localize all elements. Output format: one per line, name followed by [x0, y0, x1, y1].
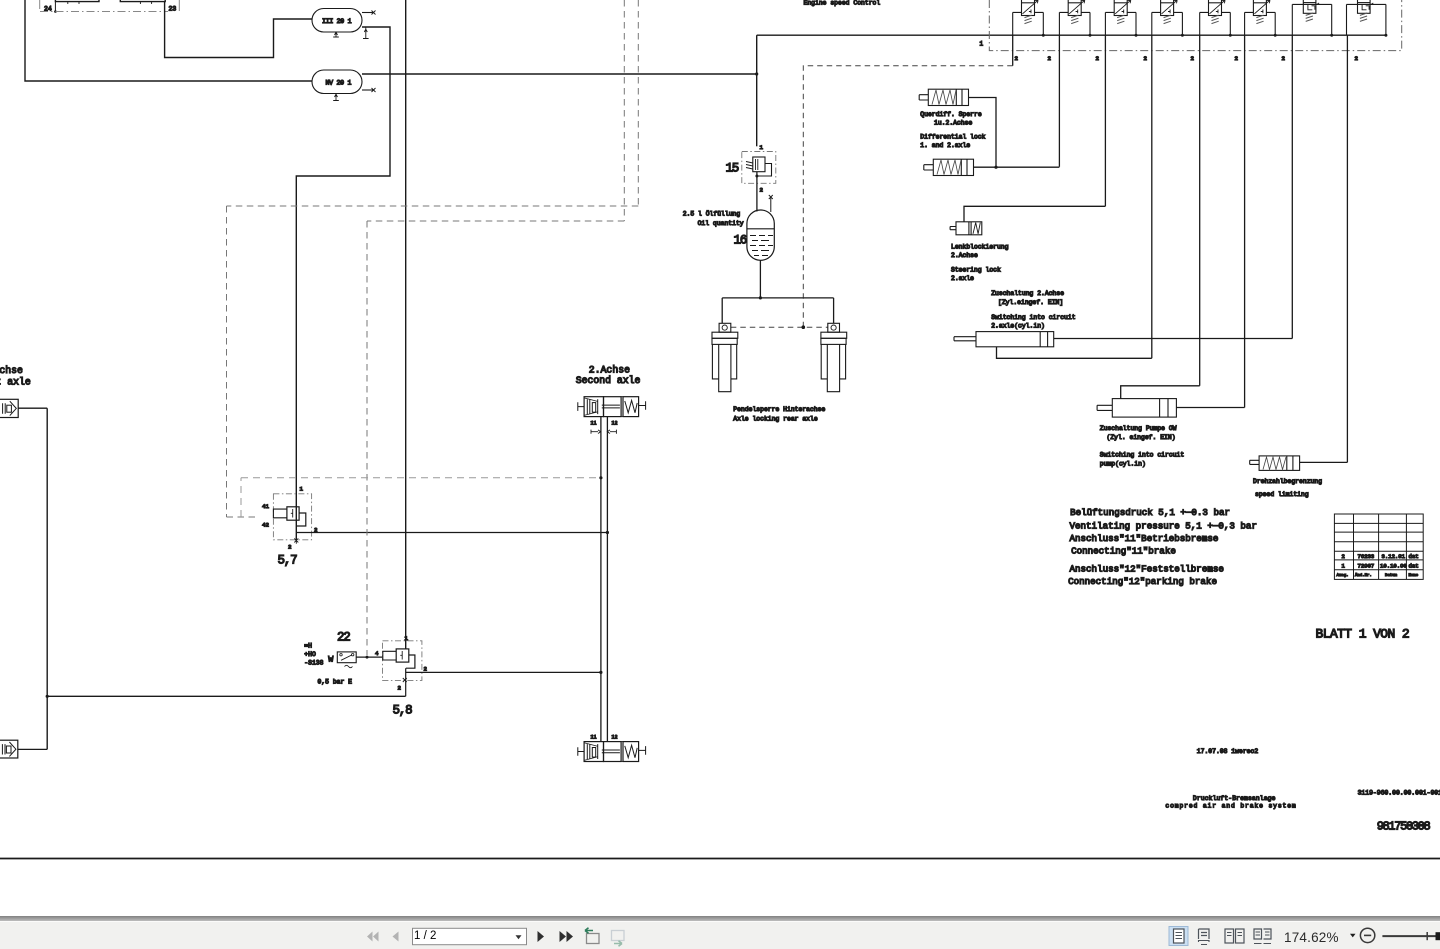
- vent line of accumulator: [769, 195, 773, 212]
- node pilot line to switch wire: [366, 656, 369, 659]
- node pilot wire junction: [802, 325, 806, 329]
- node valve V3 manifold: [1135, 34, 1138, 37]
- svg-text:Anschluss"12"Feststellbremse: Anschluss"12"Feststellbremse: [1070, 564, 1224, 575]
- drain symbol below III 20 1: [333, 32, 339, 37]
- directional valve second axle (lower): [578, 742, 646, 762]
- svg-text:Pendelsperre Hinterachse: Pendelsperre Hinterachse: [733, 406, 825, 413]
- svg-text:2.Achse: 2.Achse: [589, 364, 630, 375]
- wire valve 5,7 port 2 to axle valves: [296, 532, 607, 534]
- sheet bottom border line: [0, 858, 1440, 860]
- component box 24 (cut off at top): [54, 0, 99, 13]
- wire manifold to right lock cylinder: [833, 298, 835, 323]
- cylinder switching 2nd axle (Zuschaltung 2.Achse): [954, 332, 1054, 347]
- revision table: [1334, 514, 1423, 579]
- svg-text:Switching into circuit: Switching into circuit: [991, 314, 1076, 321]
- svg-text:NV 20 1: NV 20 1: [326, 80, 352, 87]
- zoom out button: [1360, 928, 1374, 942]
- svg-text:3.12.91: 3.12.91: [1382, 553, 1406, 560]
- svg-text:Connecting"11"brake: Connecting"11"brake: [1071, 546, 1176, 557]
- first page button (disabled): [367, 932, 379, 942]
- continuous scroll view button: [1199, 929, 1210, 945]
- svg-text:41: 41: [262, 503, 269, 510]
- wire lower left valve to riser: [18, 748, 47, 750]
- solenoid valve V8: [1347, 0, 1386, 35]
- node valve V5 manifold: [1229, 34, 1232, 37]
- wire drop from valve V5 (port 2): [1199, 35, 1201, 386]
- svg-text:Zuschaltung Pumpe OW: Zuschaltung Pumpe OW: [1100, 425, 1177, 432]
- zoom dropdown caret: [1350, 934, 1356, 938]
- svg-text:Belüftungsdruck 5,1 +─0.3 bar: Belüftungsdruck 5,1 +─0.3 bar: [1070, 507, 1230, 518]
- group frame dash-dot line (boxes 23/24): [40, 0, 180, 12]
- wire speed-limit cylinder to valve V8 drop: [1300, 461, 1348, 463]
- svg-text:981750308: 981750308: [1377, 819, 1431, 833]
- svg-text:dat: dat: [1409, 563, 1419, 570]
- cylinder speed limiting (Drehzahlbegrenzung): [1250, 456, 1300, 471]
- svg-text:2: 2: [760, 187, 764, 194]
- svg-text:5,8: 5,8: [393, 704, 413, 718]
- solenoid valve V6: [1245, 0, 1276, 35]
- accumulator 16 (oil reservoir): [747, 210, 774, 260]
- solenoid valve V5: [1200, 0, 1231, 35]
- pilot wire (dashed) group A to valve 5,7: [227, 0, 639, 517]
- svg-text:speed limiting: speed limiting: [1255, 491, 1309, 498]
- svg-text:5,7: 5,7: [278, 554, 298, 568]
- wire first axle valve to riser: [18, 407, 47, 409]
- single page view button (active): [1169, 927, 1188, 946]
- svg-text:2.axle: 2.axle: [951, 275, 974, 282]
- vent line of NV 20 1: [362, 88, 376, 92]
- node valve V8 manifold: [1384, 34, 1387, 37]
- svg-text:(Zyl. eingef. EIN): (Zyl. eingef. EIN): [1107, 434, 1176, 441]
- wire 2.axle cylinder bottom to valve V4 drop: [997, 347, 1152, 359]
- svg-text:dat: dat: [1409, 553, 1419, 560]
- long vertical wire to valve 5,8: [405, 0, 407, 649]
- svg-text:=H: =H: [304, 642, 312, 649]
- svg-text:1: 1: [1342, 563, 1346, 570]
- wire right drop between axle valves: [606, 417, 608, 742]
- wire axle-lock manifold: [722, 297, 833, 299]
- zoom slider thumb: [1436, 932, 1440, 940]
- svg-text:1u.2.Achse: 1u.2.Achse: [934, 119, 973, 126]
- wire left drop between axle valves: [600, 417, 602, 742]
- svg-text:2: 2: [1282, 55, 1286, 62]
- flow arrows below upper valve: [591, 430, 616, 434]
- svg-text:16: 16: [734, 234, 747, 248]
- svg-text:Name: Name: [1409, 574, 1419, 578]
- node valve V1 manifold: [1042, 34, 1045, 37]
- brake valve first axle (cut at left edge): [0, 399, 18, 417]
- wire pump cylinder top to valve V5 drop: [1121, 386, 1200, 399]
- svg-text:2.5 l Ölfüllung: 2.5 l Ölfüllung: [683, 209, 741, 217]
- svg-text:17.07.08 1wereo2: 17.07.08 1wereo2: [1197, 748, 1259, 755]
- wire valve 15 to accumulator 16: [756, 172, 758, 212]
- fast forward button: [560, 931, 574, 942]
- pressure switch 22: [337, 652, 356, 668]
- svg-text:BLATT 1 VON 2: BLATT 1 VON 2: [1316, 626, 1410, 641]
- pilot wire (dashed gray) to axle valve left drop: [241, 478, 601, 517]
- svg-text:III 20 1: III 20 1: [322, 18, 352, 25]
- wire valve 5,8 hook to lower corner: [405, 668, 407, 696]
- drain symbol below NV 20 1: [333, 94, 339, 101]
- pilot wire (dashed) valve row to engine speed control to axle lock: [803, 66, 1012, 328]
- node left riser junction: [46, 695, 49, 698]
- svg-text:2: 2: [1355, 55, 1359, 62]
- wire manifold of solenoid valve row: [757, 34, 1386, 36]
- wire drop from valve V1 (port 2): [1012, 35, 1014, 65]
- zoom slider track: [1382, 935, 1440, 937]
- circuit NV 20 1: [312, 70, 362, 94]
- svg-text:2: 2: [1191, 55, 1195, 62]
- wire upper diff-lock cylinder to node: [969, 98, 997, 168]
- svg-text:Querdiff. Sperre: Querdiff. Sperre: [920, 111, 982, 118]
- wire accumulator to axle-lock manifold: [759, 260, 761, 298]
- component box 23 (cut off at top): [120, 0, 165, 4]
- vent cross below valve 5,7: [294, 537, 298, 544]
- svg-text:Ausg.: Ausg.: [1337, 574, 1349, 578]
- brake valve lower left (cut at left edge): [0, 740, 18, 758]
- svg-text:1. and 2.axle: 1. and 2.axle: [920, 142, 970, 149]
- svg-text:Engine speed Control: Engine speed Control: [804, 0, 881, 7]
- wire left feed to NV 20 1: [25, 0, 312, 81]
- next view button (disabled): [612, 931, 625, 947]
- wire left riser: [46, 408, 48, 749]
- node at supply branch: [755, 72, 758, 75]
- svg-text:Anschluss"11"Betriebsbremse: Anschluss"11"Betriebsbremse: [1070, 533, 1219, 544]
- directional valve second axle (upper): [578, 397, 646, 417]
- svg-text:2: 2: [398, 685, 402, 692]
- drain symbol on III right wire: [363, 27, 369, 39]
- node wire on left drop: [599, 671, 602, 674]
- svg-text:2.Achse: 2.Achse: [951, 252, 978, 259]
- valve 5,7 group box (dash-dot): [273, 494, 311, 540]
- svg-text:[Zyl.eingef. EIN]: [Zyl.eingef. EIN]: [998, 299, 1063, 306]
- svg-text:72907: 72907: [1358, 563, 1375, 570]
- svg-text:23: 23: [169, 6, 177, 13]
- wire 2.axle cylinder right port to valve V7 drop: [1054, 338, 1293, 340]
- svg-text:2: 2: [288, 544, 292, 551]
- pilot wire (dashed) group B to pressure switch 22: [367, 0, 624, 655]
- zoom percentage: [1284, 930, 1339, 945]
- svg-text:Lenkblockierung: Lenkblockierung: [951, 243, 1009, 250]
- svg-text:Druckluft-Bremsanlage: Druckluft-Bremsanlage: [1193, 795, 1276, 802]
- zoom slider tick: [1426, 932, 1428, 940]
- solenoid valve V4: [1152, 0, 1183, 35]
- solenoid valve V7: [1292, 0, 1331, 35]
- svg-text:1.Achse: 1.Achse: [0, 365, 23, 376]
- svg-text:Datum: Datum: [1385, 574, 1398, 578]
- solenoid valve V1: [1013, 0, 1044, 35]
- solenoid valve V3: [1105, 0, 1136, 35]
- pressure valve 15: [746, 157, 772, 176]
- valve 5,7: [273, 507, 305, 526]
- svg-text:Switching into circuit: Switching into circuit: [1100, 452, 1185, 459]
- svg-text:Connecting"12"parking brake: Connecting"12"parking brake: [1068, 576, 1217, 587]
- solenoid valve row group frame (dash-dot, port 1): [989, 0, 1401, 51]
- svg-text:2: 2: [1096, 55, 1100, 62]
- svg-text:pump(cyl.in): pump(cyl.in): [1100, 460, 1146, 467]
- svg-text:Differential lock: Differential lock: [920, 133, 985, 140]
- node valve V6 manifold: [1274, 34, 1277, 37]
- two page view button: [1225, 929, 1244, 943]
- wire manifold to left lock cylinder: [721, 298, 723, 323]
- node valve V7 manifold: [1330, 34, 1333, 37]
- wire from box 23 to III 20 1: [165, 2, 312, 58]
- svg-text:76233: 76233: [1358, 553, 1375, 560]
- svg-text:10.10.90: 10.10.90: [1380, 563, 1407, 570]
- svg-text:Ventilating pressure 5,1 +─0,3: Ventilating pressure 5,1 +─0,3 bar: [1070, 520, 1257, 531]
- node wire on right drop: [606, 531, 609, 534]
- cylinder differential lock 2nd axle (lower): [924, 159, 974, 175]
- node pilot wire on left drop: [599, 476, 602, 479]
- svg-text:3119-960.00.00.001-001: 3119-960.00.00.001-001: [1358, 790, 1440, 797]
- svg-text:Zuschaltung 2.Achse: Zuschaltung 2.Achse: [991, 290, 1064, 297]
- svg-text:-S138: -S138: [304, 660, 323, 667]
- node axle-lock manifold: [759, 296, 762, 299]
- cylinder switching pump OW: [1097, 399, 1176, 418]
- PDF viewer toolbar: [0, 916, 1440, 921]
- svg-text:22: 22: [337, 631, 350, 645]
- wire drop from valve V2 (port 2): [1058, 35, 1060, 167]
- previous view button: [585, 928, 599, 944]
- wire bottom run to left riser: [47, 695, 405, 697]
- svg-text:Oil quantity: Oil quantity: [698, 220, 744, 227]
- svg-text:1: 1: [980, 41, 984, 48]
- svg-text:Steering lock: Steering lock: [951, 266, 1001, 273]
- svg-text:2: 2: [424, 666, 428, 673]
- wire lower diff-lock cylinder to valve V2 drop: [974, 166, 1060, 168]
- svg-text:4: 4: [375, 650, 379, 657]
- svg-text:Second axle: Second axle: [576, 375, 641, 386]
- pilot wire (dashed) between lock cylinders: [731, 326, 828, 328]
- wire drop from valve V6 (port 2): [1244, 35, 1246, 407]
- cylinder steering lock (Lenkblockierung): [950, 222, 982, 235]
- page number combo box: [413, 928, 527, 944]
- previous page button (disabled): [393, 932, 399, 942]
- svg-text:42: 42: [262, 522, 269, 529]
- node diff-lock cylinders junction: [994, 166, 997, 169]
- wire drop from valve V8 (port 2): [1346, 35, 1348, 462]
- svg-text:First axle: First axle: [0, 376, 31, 387]
- svg-text:2: 2: [1144, 55, 1148, 62]
- svg-text:12: 12: [612, 421, 618, 427]
- wire pressure switch to valve 5,8 port 4: [356, 656, 383, 658]
- revision row 1: [1342, 563, 1419, 570]
- wire supply riser to manifold: [756, 35, 758, 146]
- svg-text:11: 11: [591, 421, 597, 427]
- svg-text:1: 1: [300, 486, 304, 493]
- svg-text:compred air and brake system: compred air and brake system: [1165, 802, 1296, 809]
- revision row 2: [1342, 553, 1419, 560]
- svg-text:2.axle(cyl.in): 2.axle(cyl.in): [991, 323, 1045, 330]
- node valve V4 manifold: [1181, 34, 1184, 37]
- next page button: [538, 931, 545, 942]
- lock cylinder rear axle left: [712, 323, 738, 391]
- wire drop from valve V4 (port 2): [1151, 35, 1153, 358]
- valve 5,8 group box (dash-dot): [383, 641, 422, 681]
- svg-text:Axle locking rear axle: Axle locking rear axle: [733, 415, 818, 422]
- wire pump cylinder right port to valve V6 drop: [1176, 407, 1244, 409]
- svg-text:2: 2: [1342, 553, 1345, 560]
- circuit III 20 1: [312, 9, 362, 33]
- svg-text:W: W: [328, 655, 334, 665]
- wire valve 5,8 port 2 to axle valves: [406, 671, 601, 673]
- svg-text:Änd.Nr.: Änd.Nr.: [1355, 573, 1372, 578]
- svg-text:12: 12: [612, 735, 618, 741]
- svg-text:1: 1: [760, 144, 764, 151]
- revision header row: [1337, 573, 1419, 578]
- lock cylinder rear axle right: [821, 323, 847, 391]
- solenoid valve V2: [1059, 0, 1090, 35]
- valve 5,8: [383, 649, 415, 668]
- wire valve V3 drop to steering lock cylinder: [964, 206, 1105, 222]
- svg-text:0,5 bar E: 0,5 bar E: [318, 678, 353, 685]
- svg-text:1: 1: [405, 635, 409, 642]
- wire drop from valve V3 (port 2): [1104, 35, 1106, 206]
- wire drop from valve V7 (port 2): [1291, 35, 1293, 338]
- node valve 15 outlet: [755, 175, 758, 178]
- svg-text:2: 2: [1235, 55, 1239, 62]
- vent line of III 20 1: [362, 11, 376, 15]
- svg-text:2: 2: [1048, 55, 1052, 62]
- wire III 20 1 to valve 5,7: [296, 27, 390, 540]
- pressure valve 15 group box (dash-dot): [742, 152, 776, 184]
- svg-text:+HO: +HO: [304, 651, 316, 658]
- flow arrows above lower valve: [591, 738, 601, 742]
- two page scrolling view button: [1254, 929, 1271, 944]
- wire NV 20 1 main supply: [362, 73, 757, 75]
- node valve V2 manifold: [1089, 34, 1092, 37]
- cylinder differential lock 1st axle (upper): [919, 89, 968, 105]
- svg-text:2: 2: [1015, 55, 1019, 62]
- vent cross below valve 5,8: [403, 678, 407, 682]
- svg-text:15: 15: [726, 162, 739, 176]
- svg-text:Drehzahlbegrenzung: Drehzahlbegrenzung: [1253, 478, 1322, 485]
